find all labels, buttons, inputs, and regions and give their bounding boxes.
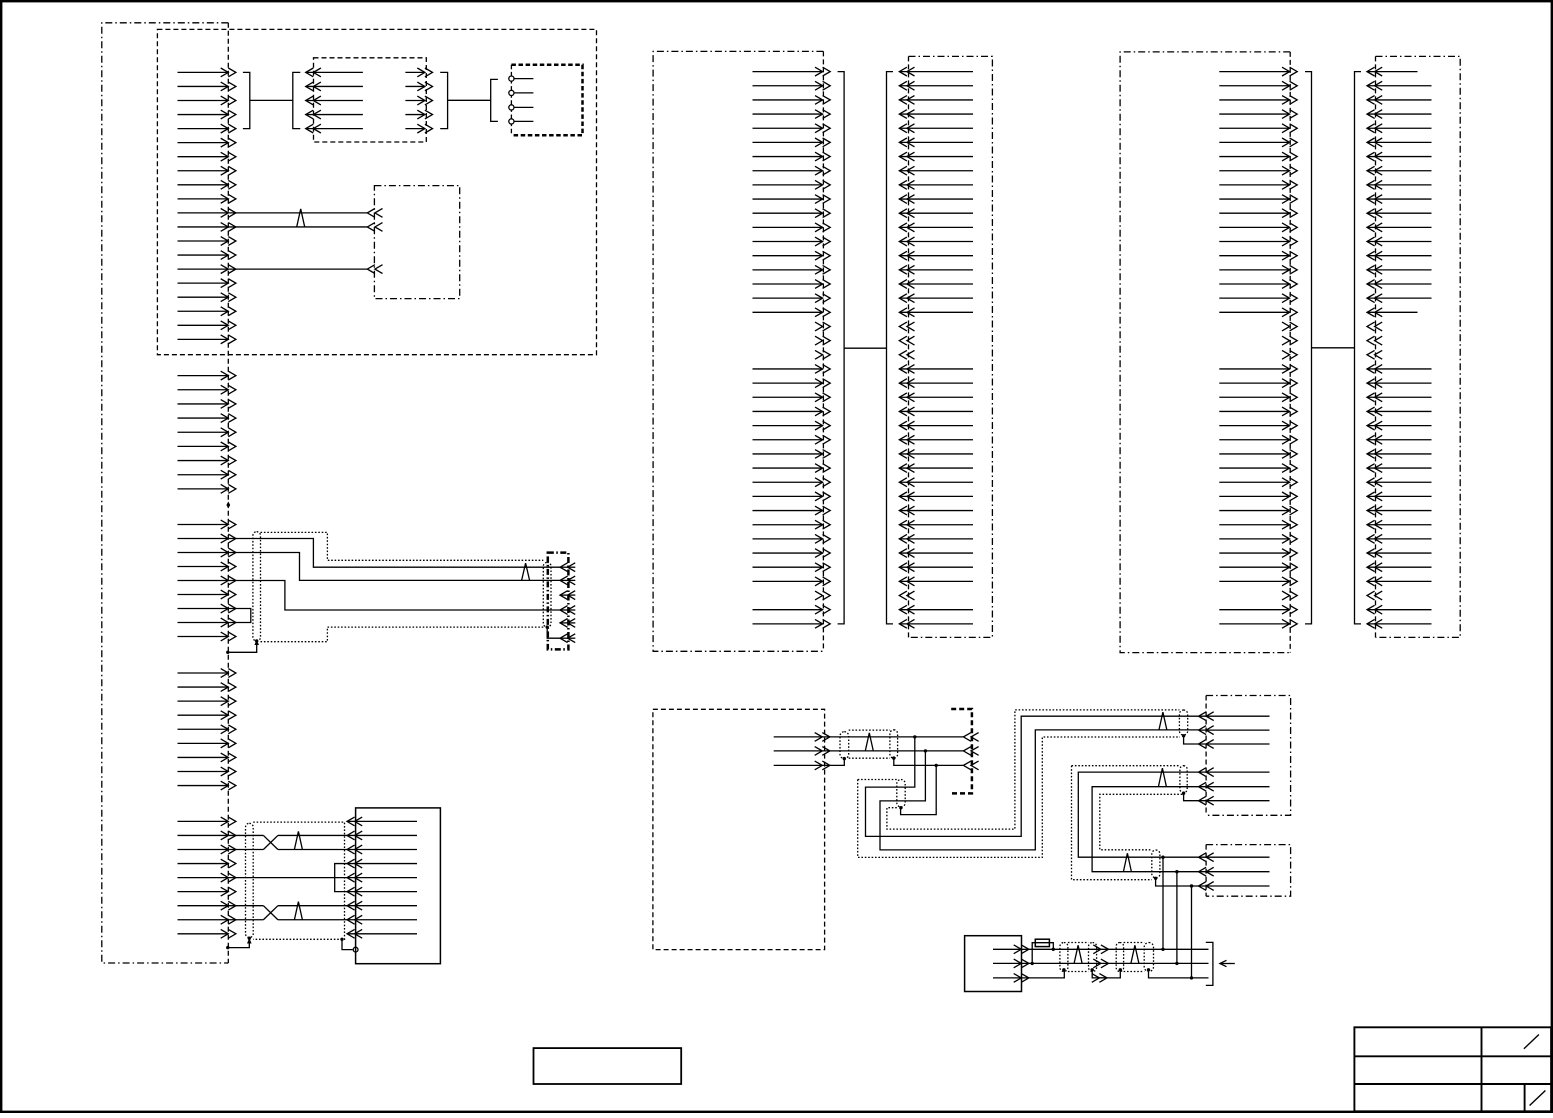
screen drain wire with arrow into CL1	[226, 640, 259, 655]
B10 output arrows (3 rows)	[993, 945, 1029, 982]
screen junction dot CR1	[546, 625, 549, 628]
connector J5 pin arrows group E (9 rows)	[178, 817, 236, 938]
row3 screen wire segment 1	[1021, 970, 1107, 983]
cable line	[844, 347, 886, 349]
screen wire row3	[822, 758, 963, 767]
cable outline bottom edge	[261, 627, 544, 642]
bold connector bracket BB1 with 3 socket arrows	[951, 709, 978, 793]
wire row1 B7 to bold connector with tee	[822, 735, 963, 738]
cable line	[1312, 347, 1355, 349]
wire from J1 row 15 to box B4	[228, 265, 382, 274]
pair caret on cable 2	[1158, 768, 1166, 787]
cable bundle outline B1 (dashed box, top-left)	[157, 29, 596, 354]
cable screen bracket right	[1355, 72, 1362, 624]
sensor box B10 (solid)	[965, 936, 1022, 992]
screen bracket BR4	[491, 79, 498, 121]
cable 1 dotted outline upper boundary	[887, 710, 1180, 829]
row3 screen wire segment 2	[1099, 970, 1208, 980]
output pin arrows (40 rows)	[753, 67, 831, 628]
terminal box B3 (bold dashed) with 4 ring terminals	[509, 65, 583, 135]
screen dot CR5	[1154, 877, 1157, 880]
cable 2 outline left vertical + cable 3 lower boundary	[1072, 766, 1152, 880]
cable screen bracket BB2	[1206, 942, 1213, 985]
screen dot CR3	[1182, 734, 1185, 737]
screen wire to top connector row3	[1184, 736, 1199, 744]
TP1 screen dots	[843, 757, 846, 760]
left unit box (dash-dot)	[653, 51, 823, 651]
three drop wires to bottom cluster	[1163, 857, 1192, 978]
signature slash 1	[1524, 1035, 1539, 1049]
TP-B screen dots	[1119, 968, 1122, 971]
cable 2 dotted outline upper boundary	[1072, 765, 1180, 767]
pair caret on cable 1	[1159, 712, 1167, 730]
bottom-right connector box B9 (dash-dot) with 3 socket arrows	[1199, 845, 1291, 897]
mating direction arrow	[1220, 960, 1235, 966]
screen bracket BR1	[243, 72, 293, 128]
wire C5 routed to B5 row4	[228, 581, 560, 611]
wire A: B7 row1 tee to top-right connector row1	[866, 716, 1199, 836]
wire C2 routed to B5 row1	[228, 539, 560, 568]
equipment box B6 (solid) with 9 socket arrows	[347, 808, 440, 964]
reference box T1	[534, 1048, 682, 1084]
cable 3 screen capsule CR5	[1152, 850, 1160, 878]
screen drain wire with arrow into CL2	[226, 938, 252, 949]
dotted top edge of TP2 band	[858, 779, 897, 781]
dotted cable outline to box B6	[253, 822, 344, 939]
title block table	[1354, 1027, 1551, 1111]
input pin arrows (40 rows)	[1367, 67, 1432, 628]
unit enclosure U1 (dash-dot box, left)	[102, 23, 229, 963]
connector J3 pin arrows group C (9 rows)	[178, 520, 236, 641]
cable 2 screen capsule CR4	[1180, 766, 1187, 793]
cable 1 screen capsule CR3	[1179, 710, 1187, 735]
jumper loop between C rows 7 and 8	[228, 609, 251, 623]
screen wire CR5 to bottom row3	[1156, 878, 1199, 887]
component jumper with body between rows 1-2	[1031, 939, 1056, 965]
jumper loop between B6 rows 4 and 6	[335, 864, 347, 892]
B7 output arrows (3 rows)	[774, 733, 830, 770]
cable 2 lower boundary / cable 3 upper boundary (dotted)	[1100, 794, 1183, 850]
wires E2/E3 with crossover and caret	[228, 831, 347, 849]
screen wire CR4 to mid row3	[1184, 793, 1199, 801]
wire C3 routed to B5 row2	[228, 553, 560, 581]
twisted pair enclosure TP-A	[1060, 943, 1097, 972]
screen dot CR4	[1182, 792, 1185, 795]
wire row2	[822, 749, 963, 752]
screen wire C to capsule CL3	[901, 765, 937, 814]
connector J4 pin arrows group D (9 rows)	[178, 669, 236, 790]
cable screen bracket left	[838, 72, 845, 624]
wires from J1 rows 11-12 to box B4 with pair caret	[228, 209, 382, 232]
row1 wire through TP-A to mid connector	[1021, 945, 1108, 954]
connector J2 pin arrows group B (9 rows)	[178, 371, 236, 493]
right unit box (dash-dot)	[909, 56, 993, 637]
left unit box (dash-dot)	[1120, 52, 1290, 653]
unit box B7 (dashed, bottom middle)	[653, 709, 825, 949]
output pin arrows (40 rows)	[1219, 67, 1297, 628]
cable screen capsule CR1	[543, 562, 551, 627]
wire E5 straight	[228, 877, 347, 879]
signature slash 2	[1530, 1091, 1546, 1106]
cable screen bracket left	[1305, 72, 1312, 624]
wire E: mid row2 to bottom row2	[1092, 787, 1198, 874]
screen bracket BR2	[293, 72, 301, 128]
screen junction dot on outline	[340, 938, 343, 941]
wire D: mid row1 to bottom row1	[1078, 772, 1198, 859]
screen junction dot CL1	[255, 639, 258, 642]
top-right connector box B8 (dash-dot) with 6 socket arrows	[1199, 696, 1291, 816]
connector J1 pin arrows group A (20 rows)	[178, 68, 236, 344]
cable screen capsule CL1	[253, 532, 261, 641]
cable screen capsule CL2	[246, 823, 254, 937]
screen wire from CR1 to B5 row6	[547, 627, 560, 638]
twisted pair enclosure TP1 (two capsules + dotted band)	[840, 730, 898, 759]
twisted pair enclosure TP-B	[1116, 943, 1153, 972]
screen dot CL3	[899, 806, 902, 809]
remote unit box B4 (dash-dot)	[374, 186, 459, 299]
wires E7/E8 with crossover and caret	[228, 902, 347, 920]
cable continuation marker on connector line	[226, 502, 230, 509]
screen junction dot CL2	[248, 937, 251, 940]
screen bracket BR3	[440, 72, 491, 128]
wire B: B7 row2 tee to top-right connector row2	[880, 730, 1199, 850]
row2 wire through TP-A to mid connector	[1021, 959, 1108, 968]
junction box B2 (dashed) with 5 in / 5 out rows	[306, 58, 433, 142]
connector B5 (bold dash-dot) with 6 socket arrows	[548, 553, 576, 650]
row1 wire TP-B to bracket	[1101, 948, 1209, 951]
cable outline (dotted) from CL1 to connector B5 - top edge	[261, 532, 544, 560]
screen wire to case ring of B6	[342, 939, 358, 952]
cable screen bracket right	[887, 72, 894, 624]
input pin arrows (40 rows)	[899, 67, 973, 628]
cable 1 dotted outline lower boundary	[858, 737, 1180, 857]
cable screen capsule CL3	[897, 780, 905, 808]
pair caret on wires C2/C3	[522, 563, 530, 580]
pair caret on cable 3	[1123, 853, 1131, 872]
right unit box (dash-dot)	[1376, 56, 1461, 637]
TP-A screen dots	[1062, 968, 1065, 971]
row2 wire TP-B to bracket	[1101, 962, 1209, 965]
